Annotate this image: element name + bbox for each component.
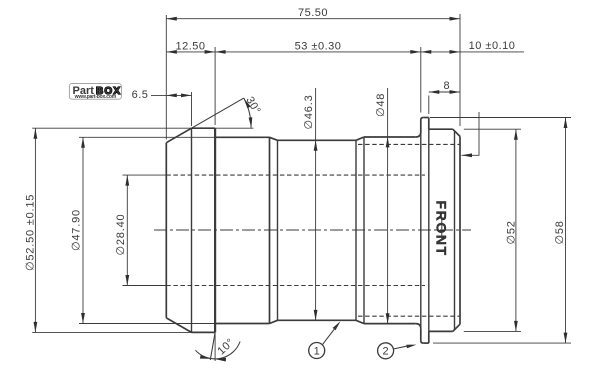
cap chamfer edge line	[454, 132, 456, 330]
wire extension O28.40 top	[123, 174, 167, 176]
svg-text:12.50: 12.50	[175, 40, 205, 52]
bottom edge O47.90	[215, 323, 269, 325]
dimension line 6.5	[151, 94, 192, 96]
8 arrows	[429, 90, 440, 94]
dimension line O47.90	[82, 137, 84, 323]
hidden counterbore bottom	[358, 315, 460, 317]
6.5 arrows	[166, 94, 177, 98]
O52 arrows	[514, 129, 518, 140]
edge line x364	[363, 137, 365, 324]
lip fillet top-left	[416, 132, 421, 137]
cap chamfer bottom-right	[453, 324, 460, 331]
chamfer 30 top	[166, 128, 191, 143]
O48 arrows	[386, 137, 390, 148]
lip corner arc bottom	[421, 341, 424, 344]
O58 arrows	[564, 118, 568, 129]
wire extension line chamfer edge up	[191, 92, 193, 126]
lip bottom edge	[423, 342, 429, 344]
svg-text:∅28.40: ∅28.40	[115, 214, 127, 256]
left face	[165, 143, 167, 318]
wire extension O58 top	[430, 117, 571, 119]
lip fillet bottom-left	[416, 324, 421, 329]
face x269.5	[269, 137, 271, 323]
label 10deg	[215, 336, 236, 357]
wire extension O52 top	[464, 128, 521, 130]
10 arrows	[421, 50, 432, 54]
dimension line 75.50	[166, 18, 460, 20]
svg-text:75.50: 75.50	[298, 7, 328, 19]
dimension line 12.50 and 53	[166, 51, 420, 53]
10deg arc arrows	[200, 355, 211, 359]
10deg taper line	[210, 332, 215, 360]
wire extension line left face top	[165, 15, 167, 140]
balloon 2 leader arrow	[406, 345, 416, 349]
wire extension O52 bottom	[464, 330, 521, 332]
lip corner arc top	[421, 118, 424, 121]
PartBOX logo	[69, 84, 121, 101]
cap right face	[459, 136, 461, 324]
dimension line O52.50	[34, 128, 36, 332]
svg-text:∅47.90: ∅47.90	[71, 209, 83, 251]
30deg chamfer leader line	[192, 98, 244, 128]
wire extension 8 dim to lip	[428, 96, 430, 115]
lip right face bottom	[428, 331, 430, 343]
label 30deg	[243, 95, 262, 117]
bottom edge O52.50	[192, 331, 216, 333]
30deg arc arrows	[244, 98, 251, 108]
dimension line O52	[515, 129, 517, 331]
dimension line 8	[429, 91, 460, 93]
chamfer to O46.3 bottom	[270, 320, 278, 323]
wire extension 30deg reference	[215, 127, 253, 129]
svg-text:www.part-box.com: www.part-box.com	[74, 94, 117, 100]
wire extension O47.90 bottom	[79, 323, 215, 325]
centerline	[154, 229, 471, 231]
wire extension line step down for 10deg	[214, 332, 216, 361]
svg-text:1: 1	[314, 345, 320, 357]
hidden bore O28.40 bottom	[166, 285, 425, 287]
75.50 arrows	[166, 17, 177, 21]
dimension line O28.40	[126, 175, 128, 285]
svg-text:∅52: ∅52	[506, 220, 518, 244]
O46.3 arrows	[314, 140, 318, 151]
svg-text:2: 2	[383, 346, 389, 358]
hidden counterbore top	[358, 143, 460, 145]
balloon 1	[309, 325, 338, 359]
top edge O48	[364, 136, 416, 138]
bottom edge O46.3	[278, 319, 357, 321]
O52.50 arrows	[34, 128, 38, 139]
wire extension line lip left	[420, 47, 422, 113]
cap bottom edge O52	[429, 330, 453, 332]
O28.40 arrows	[125, 175, 129, 186]
edge line x277.5	[277, 140, 279, 320]
leader jog right face	[462, 112, 480, 155]
edge line x356	[355, 140, 357, 320]
wire extension O28.40 bottom	[123, 285, 167, 287]
dimension line O58	[565, 118, 567, 344]
wire extension line step x215	[214, 47, 216, 125]
svg-text:10 ±0.10: 10 ±0.10	[469, 40, 516, 52]
chamfer to O46.3 top	[270, 137, 278, 140]
lip left face (full edge)	[420, 132, 422, 329]
cap chamfer top-right	[453, 129, 460, 136]
wire extension line right face	[459, 14, 461, 126]
svg-text:53 ±0.30: 53 ±0.30	[295, 40, 342, 52]
svg-text:∅48: ∅48	[375, 93, 387, 117]
30deg arc	[244, 98, 251, 128]
bottom edge O48	[364, 323, 416, 325]
dimension line 10	[421, 51, 524, 53]
svg-text:∅58: ∅58	[554, 220, 566, 244]
svg-text:6.5: 6.5	[132, 89, 149, 101]
svg-text:∅52.50 ±0.15: ∅52.50 ±0.15	[25, 194, 37, 271]
chamfer to O48 top	[356, 137, 364, 140]
wire extension O47.90 top	[79, 136, 215, 138]
53 arrows	[215, 50, 226, 54]
chamfer edge circle line	[191, 128, 193, 332]
dimension line O48	[387, 88, 389, 324]
top edge O52.50	[192, 127, 216, 129]
chamfer to O48 bottom	[356, 320, 364, 323]
top edge O47.90	[215, 136, 269, 138]
O47.90 arrows	[81, 137, 85, 148]
lip top edge	[423, 117, 429, 119]
jog leader arrow	[462, 153, 473, 157]
wire extension O52.50 top	[32, 127, 191, 129]
svg-text:∅46.3: ∅46.3	[303, 95, 315, 130]
step face x215	[214, 128, 216, 332]
cap top edge O52	[429, 128, 453, 130]
balloon 2	[378, 343, 411, 359]
part outline left section O52.50	[166, 118, 460, 344]
chamfer 30 bottom	[166, 318, 191, 333]
balloon 1 leader arrow	[333, 321, 341, 330]
top edge O46.3	[278, 139, 357, 141]
lip right face (full edge)	[428, 129, 430, 331]
wire extension O58 bottom	[433, 342, 571, 344]
12.50 arrows	[166, 50, 177, 54]
wire extension O52.50 bottom	[32, 331, 191, 333]
lip left face bottom	[420, 329, 422, 341]
10deg arc	[196, 342, 241, 359]
dimension line O46.3	[315, 88, 317, 320]
svg-text:8: 8	[443, 80, 449, 92]
hidden bore O28.40 top	[166, 174, 425, 176]
center tick at O of FRONT	[441, 220, 443, 241]
